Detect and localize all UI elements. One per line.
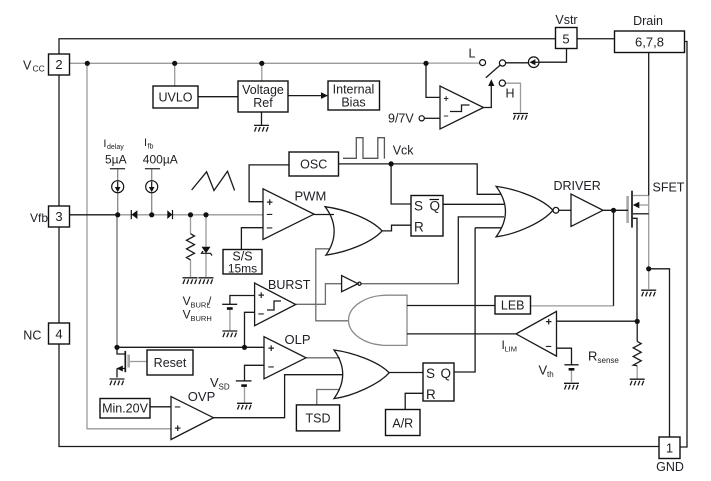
svg-text:NC: NC <box>23 329 41 343</box>
svg-text:Bias: Bias <box>341 96 365 110</box>
svg-text:delay: delay <box>107 144 124 151</box>
svg-text:th: th <box>547 370 554 379</box>
svg-text:CC: CC <box>33 64 45 74</box>
svg-text:2: 2 <box>55 57 62 72</box>
svg-text:SD: SD <box>219 383 230 392</box>
svg-text:Vfb: Vfb <box>30 211 48 225</box>
svg-text:–: – <box>175 401 181 413</box>
svg-text:5: 5 <box>562 32 569 47</box>
svg-text:Voltage: Voltage <box>242 83 284 97</box>
svg-text:A/R: A/R <box>392 417 413 431</box>
svg-text:Vck: Vck <box>393 144 415 158</box>
svg-text:Q: Q <box>441 366 452 381</box>
svg-text:Ref: Ref <box>253 96 273 110</box>
svg-text:DRIVER: DRIVER <box>554 179 601 193</box>
svg-text:I: I <box>103 138 106 150</box>
svg-text:+: + <box>268 343 274 355</box>
svg-text:Reset: Reset <box>154 356 187 370</box>
svg-text:R: R <box>414 220 424 235</box>
svg-text:BURST: BURST <box>268 278 311 292</box>
svg-text:–: – <box>267 222 273 234</box>
svg-text:H: H <box>506 87 515 101</box>
svg-text:+: + <box>546 317 552 329</box>
svg-text:OSC: OSC <box>300 158 327 172</box>
svg-text:+: + <box>444 94 449 104</box>
svg-text:+: + <box>175 423 181 435</box>
svg-text:LIM: LIM <box>505 345 518 354</box>
svg-text:S: S <box>426 366 435 381</box>
svg-text:–: – <box>267 209 273 221</box>
svg-text:3: 3 <box>55 209 62 224</box>
svg-text:OVP: OVP <box>188 389 215 404</box>
svg-text:L: L <box>469 47 476 61</box>
svg-text:1: 1 <box>666 441 673 456</box>
svg-text:SFET: SFET <box>653 181 685 195</box>
svg-text:15ms: 15ms <box>228 262 257 276</box>
svg-text:R: R <box>426 387 436 402</box>
svg-text:4: 4 <box>55 327 62 342</box>
svg-text:sense: sense <box>598 356 620 365</box>
svg-text:–: – <box>546 341 552 353</box>
svg-text:V: V <box>183 308 191 322</box>
svg-text:–: – <box>258 308 264 320</box>
svg-text:UVLO: UVLO <box>158 91 192 105</box>
svg-text:Drain: Drain <box>633 14 663 28</box>
svg-text:6,7,8: 6,7,8 <box>635 35 664 50</box>
svg-text:BURH: BURH <box>191 314 212 323</box>
svg-text:TSD: TSD <box>306 412 331 426</box>
svg-text:Vstr: Vstr <box>555 13 577 27</box>
svg-text:LEB: LEB <box>501 299 525 313</box>
svg-text:fb: fb <box>148 144 154 151</box>
svg-text:V: V <box>23 59 32 73</box>
svg-text:Q: Q <box>430 199 441 214</box>
svg-text:V: V <box>183 294 191 308</box>
svg-text:9/7V: 9/7V <box>388 112 414 126</box>
svg-text:+: + <box>258 290 264 302</box>
svg-text:5µA: 5µA <box>105 153 127 167</box>
svg-text:–: – <box>444 111 449 121</box>
svg-text:Internal: Internal <box>333 83 375 97</box>
svg-text:PWM: PWM <box>295 189 327 204</box>
svg-text:+: + <box>267 197 273 209</box>
svg-text:GND: GND <box>656 460 684 474</box>
svg-text:400µA: 400µA <box>143 153 178 167</box>
svg-text:–: – <box>268 361 274 373</box>
svg-text:R: R <box>588 349 597 364</box>
svg-text:S: S <box>414 199 423 214</box>
svg-text:Min.20V: Min.20V <box>102 402 149 416</box>
svg-text:OLP: OLP <box>285 332 311 347</box>
